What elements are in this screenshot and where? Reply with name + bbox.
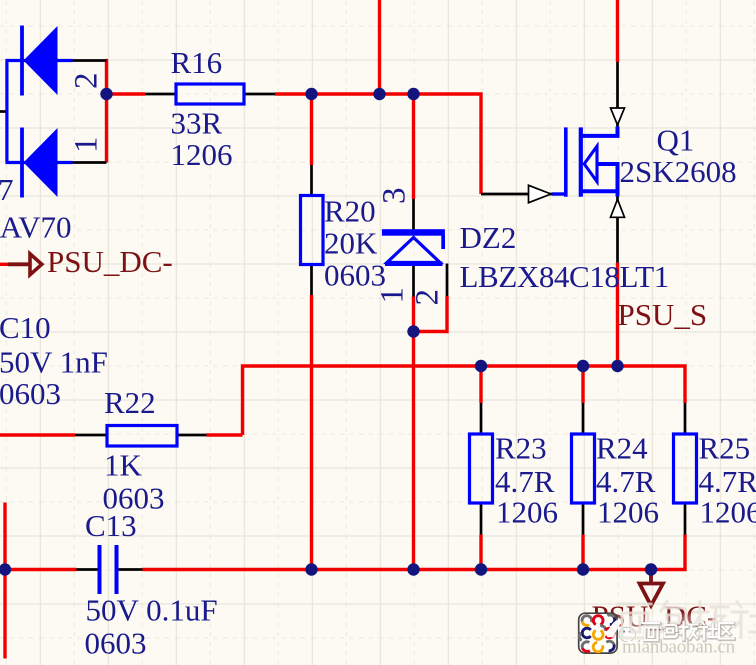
resistor R16 bbox=[176, 84, 244, 104]
svg-text:1: 1 bbox=[69, 137, 105, 154]
svg-text:50V 0.1uF: 50V 0.1uF bbox=[86, 593, 218, 628]
wire R24 bottom stub bbox=[581, 535, 584, 570]
svg-text:R24: R24 bbox=[596, 431, 648, 466]
pin R24 top bbox=[582, 403, 585, 434]
wire diode common vertical bbox=[105, 59, 108, 163]
pin R16 left bbox=[145, 93, 176, 96]
wire mid rail bbox=[243, 366, 686, 435]
pin arrow Q1 source bbox=[611, 199, 625, 217]
wire bottom rail bbox=[143, 535, 686, 570]
svg-text:1206: 1206 bbox=[700, 495, 756, 530]
junction bottom left bbox=[0, 563, 11, 575]
svg-text:BAV70: BAV70 bbox=[0, 210, 71, 245]
svg-text:PSU_DC-: PSU_DC- bbox=[47, 244, 173, 279]
junction DZ2 pins bbox=[407, 325, 419, 337]
pin Q1 gate bbox=[481, 193, 553, 196]
svg-text:20K: 20K bbox=[324, 226, 378, 261]
svg-text:1K: 1K bbox=[104, 448, 143, 483]
watermark main CJK outline bbox=[643, 622, 734, 641]
pin R22 right bbox=[177, 434, 207, 437]
pin R22 left bbox=[75, 434, 107, 437]
diode D7b bottom (BAV70) bbox=[6, 128, 73, 198]
svg-text:2SK2608: 2SK2608 bbox=[620, 154, 737, 189]
pin R25 top bbox=[684, 403, 687, 434]
svg-text:mianbaoban.cn: mianbaoban.cn bbox=[622, 637, 736, 658]
svg-text:DZ2: DZ2 bbox=[460, 220, 517, 255]
pin R20 bottom bbox=[310, 265, 313, 296]
resistor R20 bbox=[301, 196, 324, 265]
junction R24 bottom bbox=[577, 563, 589, 575]
resistor R23 bbox=[470, 434, 493, 503]
svg-text:0603: 0603 bbox=[0, 376, 61, 411]
wire R22 left bbox=[0, 433, 75, 436]
watermark ghost CJK layer bbox=[618, 601, 756, 638]
svg-text:50V 1nF: 50V 1nF bbox=[0, 345, 108, 380]
diode D7a top (BAV70) bbox=[6, 26, 73, 96]
pin Q1 source bbox=[616, 197, 619, 263]
watermark backing bbox=[616, 615, 738, 643]
svg-text:R23: R23 bbox=[495, 431, 547, 466]
wire R23 bottom stub bbox=[479, 535, 482, 570]
pin C13 right bbox=[119, 568, 143, 571]
pin D7 common cathode 3 bbox=[0, 110, 7, 113]
mosfet Q1 2SK2608 bbox=[552, 127, 618, 197]
svg-text:2: 2 bbox=[410, 289, 446, 306]
wire junction to R16 bbox=[105, 92, 145, 95]
zener diode DZ2 bbox=[382, 229, 445, 264]
svg-text:2: 2 bbox=[69, 73, 105, 90]
wire left port stub bbox=[0, 263, 8, 266]
svg-text:R20: R20 bbox=[324, 194, 376, 229]
pin DZ2 3 bbox=[412, 199, 415, 230]
wire top vertical feed bbox=[378, 0, 381, 94]
wire rail to DZ2 pin3 bbox=[412, 94, 415, 199]
pin R23 bottom bbox=[480, 503, 483, 535]
wire R24 top stub bbox=[581, 366, 584, 403]
junction R23 bottom bbox=[475, 563, 487, 575]
wire Q1 source to mid rail bbox=[616, 263, 619, 366]
diode D7 cathode link bbox=[5, 61, 8, 163]
junction Q1 source rail bbox=[611, 360, 623, 372]
svg-text:Q1: Q1 bbox=[657, 123, 695, 158]
pin D7 anode 2 bbox=[73, 59, 107, 62]
junction R24 top bbox=[577, 360, 589, 372]
resistor R25 bbox=[674, 434, 697, 503]
junction R20 top bbox=[305, 88, 317, 100]
junction R23 top bbox=[475, 360, 487, 372]
pin C13 left bbox=[77, 568, 98, 571]
watermark logo box bbox=[579, 613, 617, 653]
wire R22 right bbox=[207, 433, 243, 436]
pin R24 bottom bbox=[582, 503, 585, 535]
watermark mascot bubble bbox=[604, 618, 635, 646]
pin R23 top bbox=[480, 403, 483, 434]
junction diode/R16 bbox=[100, 88, 112, 100]
pin R20 top bbox=[310, 165, 313, 196]
pin Q1 drain bbox=[616, 62, 619, 127]
wire DZ2 pin1 down to bottom rail bbox=[412, 297, 415, 570]
pin DZ2 1 bbox=[412, 266, 415, 297]
wire bottom rail left bbox=[5, 568, 77, 571]
svg-text:1206: 1206 bbox=[597, 495, 659, 530]
junction DZ2 top bbox=[407, 88, 419, 100]
svg-text:PSU_S: PSU_S bbox=[618, 297, 708, 332]
svg-text:C10: C10 bbox=[0, 310, 51, 345]
svg-text:R25: R25 bbox=[699, 431, 751, 466]
wire R16 to gate corner bbox=[275, 94, 481, 194]
wire R20 bottom to bottom rail bbox=[310, 295, 313, 570]
svg-text:R16: R16 bbox=[171, 45, 223, 80]
svg-text:1206: 1206 bbox=[171, 137, 233, 172]
pin R25 bottom bbox=[684, 503, 687, 535]
wire R23 top stub bbox=[479, 366, 482, 403]
pin arrow Q1 gate bbox=[529, 185, 552, 202]
power port PSU_DC- left bbox=[8, 254, 42, 275]
junction top feed bbox=[373, 88, 385, 100]
resistor R22 bbox=[107, 426, 177, 447]
power port PSU_DC- bottom bbox=[640, 571, 664, 606]
svg-text:1: 1 bbox=[375, 287, 411, 304]
svg-text:R22: R22 bbox=[104, 385, 156, 420]
capacitor C13 plates bbox=[100, 545, 117, 594]
svg-text:1206: 1206 bbox=[496, 495, 558, 530]
junction R20 bottom bbox=[305, 563, 317, 575]
svg-text:7: 7 bbox=[0, 172, 14, 207]
junction power port bbox=[645, 563, 657, 575]
pin R16 right bbox=[244, 93, 275, 96]
wire rail to R20 top bbox=[310, 94, 313, 165]
wire DZ2 pin2 jog bbox=[414, 296, 448, 332]
svg-text:C13: C13 bbox=[85, 508, 137, 543]
junction DZ2 bottom bbox=[407, 563, 419, 575]
pin DZ2 2 bbox=[446, 264, 449, 297]
resistor R24 bbox=[572, 434, 595, 503]
wire left edge vertical bbox=[3, 503, 6, 659]
svg-text:0603: 0603 bbox=[85, 626, 147, 661]
pin D7 anode 1 bbox=[73, 161, 107, 164]
pin arrow Q1 drain bbox=[611, 108, 625, 125]
svg-text:3: 3 bbox=[377, 188, 413, 205]
svg-text:LBZX84C18LT1: LBZX84C18LT1 bbox=[460, 259, 669, 294]
wire Q1 drain feed bbox=[616, 0, 619, 62]
svg-text:33R: 33R bbox=[171, 106, 223, 141]
watermark main CJK white bbox=[643, 622, 734, 641]
